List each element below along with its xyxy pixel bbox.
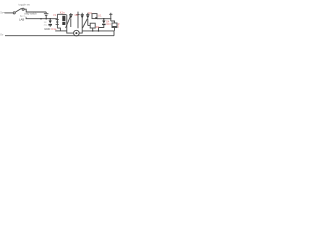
riser wire xyxy=(57,13,62,15)
diode D3 lead xyxy=(87,18,89,25)
svg-text:U1: U1 xyxy=(98,13,102,17)
cell stack body xyxy=(62,16,65,25)
capacitor C1 wire xyxy=(77,12,79,29)
diode D2 lead xyxy=(70,18,72,27)
battery B1 lead top xyxy=(45,12,47,13)
resistor R2 body xyxy=(90,23,95,28)
coil tick 3 xyxy=(56,23,59,25)
svg-text:D2: D2 xyxy=(75,13,79,17)
svg-text:GND: GND xyxy=(44,27,50,31)
svg-text:5v=: 5v= xyxy=(0,11,5,15)
junction node xyxy=(49,18,51,20)
cell stack stripe xyxy=(62,20,66,23)
svg-text:R2: R2 xyxy=(96,25,100,29)
coil tick 2 xyxy=(56,21,58,23)
svg-text:1N4: 1N4 xyxy=(106,23,111,26)
bottom return wire xyxy=(5,35,114,37)
lamp left wire xyxy=(67,15,74,33)
resistor R3 body xyxy=(112,23,117,28)
switch SW1 left contact xyxy=(13,12,15,14)
battery B1 lead bottom xyxy=(45,15,47,18)
diode D1 bar xyxy=(48,24,52,26)
contact lever K1 xyxy=(66,16,71,28)
junction node rail2 xyxy=(98,30,100,32)
supply stub xyxy=(26,17,57,19)
switch K2 left wire xyxy=(81,13,83,31)
battery B1 short plate xyxy=(45,14,48,16)
svg-text:toggle sw: toggle sw xyxy=(19,3,30,7)
resistor R3 bottom lead xyxy=(114,28,116,31)
antenna wire xyxy=(110,13,112,21)
junction node xyxy=(40,18,42,20)
diode D1 lead xyxy=(49,19,51,21)
svg-text:K1a: K1a xyxy=(60,10,65,14)
diode D4 lead bottom jog xyxy=(99,24,104,31)
lamp L1 xyxy=(74,30,80,36)
antenna tick xyxy=(109,13,112,15)
module A body xyxy=(92,14,97,19)
resistor R2 bottom lead xyxy=(92,28,94,31)
riser bottom jog xyxy=(57,28,60,31)
diode D3 triangle xyxy=(86,15,89,18)
wire from left label to switch xyxy=(5,12,13,14)
switch SW1 right contact xyxy=(22,8,24,10)
diode D1 lead bottom xyxy=(49,26,51,27)
diode D5 triangle xyxy=(81,15,84,18)
rail right segment xyxy=(82,30,114,32)
resistor R3 pad xyxy=(112,25,116,28)
junction node rail xyxy=(92,30,94,32)
svg-text:D3: D3 xyxy=(88,11,92,15)
svg-text:D1a: D1a xyxy=(51,27,56,31)
capacitor C1 tick xyxy=(76,14,79,16)
diode D4 triangle xyxy=(102,21,105,24)
diode D1 triangle xyxy=(49,21,52,24)
junction node xyxy=(45,18,47,20)
bus right segment xyxy=(97,18,111,20)
switch SW1 lever xyxy=(15,8,21,12)
svg-text:V1: V1 xyxy=(53,13,57,17)
junction node xyxy=(103,18,105,20)
diode D3 tick xyxy=(86,14,89,16)
diode D4 lead xyxy=(103,19,105,21)
diode D2 triangle xyxy=(69,15,72,18)
svg-text:LAB: LAB xyxy=(19,18,24,22)
wire into resistor R3 xyxy=(111,21,115,23)
switch K2 lever xyxy=(83,19,88,28)
diode D2 tick xyxy=(69,14,73,16)
diode D3 stub xyxy=(87,13,89,15)
coil tick 1 xyxy=(56,19,59,21)
diode D4 bar xyxy=(102,24,106,25)
rail drop to bottom wire xyxy=(113,31,115,36)
rail left segment xyxy=(55,30,67,32)
module A pad xyxy=(95,17,97,18)
cell stack plate xyxy=(63,14,67,16)
lamp right wire xyxy=(79,31,82,33)
switch K2 left tick xyxy=(81,14,84,16)
diode D2 stub xyxy=(70,13,72,15)
wire to resistor R2 xyxy=(88,25,90,27)
battery B1 long plate xyxy=(44,13,49,15)
wire switch to corner xyxy=(25,9,47,12)
